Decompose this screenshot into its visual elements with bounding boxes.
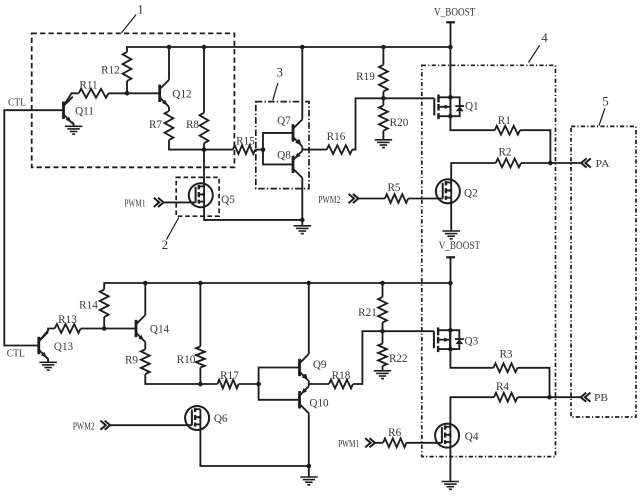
resistor R10 xyxy=(177,347,205,368)
node R19 top on rail xyxy=(381,45,386,50)
node R21 top on rail2 xyxy=(380,281,385,286)
wire R9 bottom to R17 line xyxy=(145,374,200,384)
resistor R21 xyxy=(358,297,387,323)
resistor R19 xyxy=(356,65,388,92)
label 4 xyxy=(541,30,548,45)
svg-text:Q7: Q7 xyxy=(277,115,291,127)
wire R13 to Q14 base xyxy=(81,328,136,330)
node CTL bottom label xyxy=(7,347,25,359)
node Q8 collector / Q5 source xyxy=(300,218,305,223)
node Q7/Q8 base junction xyxy=(261,147,266,152)
transistor Q10 xyxy=(300,386,330,413)
svg-text:PB: PB xyxy=(594,392,608,404)
ground below Q10 xyxy=(300,477,318,485)
wire R21 bottom lead xyxy=(382,323,384,344)
resistor R7 xyxy=(149,111,173,140)
wire PWM2 to Q6 gate xyxy=(110,424,192,426)
wire Q10 collector down xyxy=(308,413,310,477)
node Q7 collector on rail xyxy=(300,45,305,50)
svg-text:PWM2: PWM2 xyxy=(318,194,340,206)
label 3 leader line xyxy=(273,83,278,100)
svg-text:Q5: Q5 xyxy=(221,194,235,206)
transistor Q14 xyxy=(136,315,170,342)
node PB junction xyxy=(547,395,552,400)
transistor Q13 xyxy=(39,332,74,359)
svg-text:R11: R11 xyxy=(79,80,97,92)
wire gate of Q3 xyxy=(383,330,434,332)
dash-dot box 4 (output stage) xyxy=(422,65,556,456)
ground below R22 xyxy=(374,371,391,379)
svg-text:Q3: Q3 xyxy=(465,336,479,348)
wire Q9/Q10 output to R18 xyxy=(309,383,329,385)
label 1 leader line xyxy=(122,15,137,33)
svg-text:R18: R18 xyxy=(332,370,351,382)
output arrow PB xyxy=(581,393,591,402)
wire Q11 collector to R11 xyxy=(64,93,79,106)
label 5 leader line xyxy=(599,109,605,126)
wire R21 top lead xyxy=(382,283,384,297)
node PWM2 bottom label xyxy=(73,420,95,432)
node junction R13/R14 xyxy=(102,326,107,331)
transistor Q11 xyxy=(64,97,94,124)
node Q3 drain xyxy=(448,328,453,333)
dashed box 2 (around Q5) xyxy=(176,177,219,216)
input arrow PWM2 xyxy=(349,194,359,203)
svg-text:PA: PA xyxy=(596,158,610,170)
svg-text:R5: R5 xyxy=(387,182,400,194)
wire R16 up to R19/R20 node xyxy=(352,98,383,149)
svg-text:R9: R9 xyxy=(125,354,138,366)
svg-text:R3: R3 xyxy=(499,348,512,360)
wire R3 to PB node xyxy=(518,368,550,397)
wire Q13 collector to R13 xyxy=(39,329,55,342)
svg-text:Q6: Q6 xyxy=(214,413,228,425)
node R7/R8 junction xyxy=(202,147,207,152)
wire V_BOOST to Q1 drain / to R1 xyxy=(450,47,494,130)
wire R11 to Q12 base xyxy=(109,92,160,94)
transistor Q9 xyxy=(300,354,327,381)
output arrow PA xyxy=(581,158,591,167)
ground below R20 xyxy=(375,140,393,148)
wire Q7 collector to rail xyxy=(301,47,303,119)
wire R15 to Q7/Q8 bases xyxy=(255,149,263,151)
node Q14 collector on rail2 xyxy=(143,281,148,286)
svg-text:R22: R22 xyxy=(389,353,408,365)
wire Q9/Q10 emitter junction xyxy=(308,381,310,386)
resistor R17 xyxy=(218,370,240,389)
ground below Q8 xyxy=(294,226,312,234)
wire R2 to PA node xyxy=(521,162,582,164)
wire R5 to Q2 gate xyxy=(408,198,443,200)
svg-text:Q9: Q9 xyxy=(313,359,327,371)
wire PWM2 to Q2 gate via R5 xyxy=(358,198,385,200)
node PA label xyxy=(596,158,610,170)
node PA junction xyxy=(548,161,553,166)
wire Q11 emitter to ground xyxy=(72,122,74,126)
transistor Q8 xyxy=(277,149,302,178)
wire Q5 source to Q8 node xyxy=(204,202,302,220)
svg-text:3: 3 xyxy=(277,65,284,80)
resistor R13 xyxy=(55,314,81,333)
svg-text:R16: R16 xyxy=(327,131,346,143)
wire R8 top lead to rail xyxy=(203,47,205,113)
wire R10 bottom lead xyxy=(199,368,201,387)
svg-text:R2: R2 xyxy=(498,146,511,158)
wire Q2 drain to R2 xyxy=(451,163,496,183)
wire R18 up to R21/R22 node xyxy=(353,331,383,384)
wire bottom V_BOOST rail xyxy=(104,283,450,290)
transistor Q7 xyxy=(277,115,302,146)
wire Q14 collector to rail2 xyxy=(144,283,146,315)
node Q1 source xyxy=(448,114,453,119)
wire Q7/Q8 emitter junction xyxy=(301,146,303,151)
svg-text:CTL: CTL xyxy=(8,96,26,108)
svg-text:PWM1: PWM1 xyxy=(338,438,359,450)
resistor R6 xyxy=(383,427,406,447)
wire R8 bottom lead to Q5 drain xyxy=(203,143,205,186)
wire Q9 collector to rail2 xyxy=(308,283,310,354)
resistor R2 xyxy=(496,146,521,167)
input arrow PWM2 bottom xyxy=(100,421,110,430)
node PWM1 label xyxy=(125,198,146,210)
ground below Q2 xyxy=(442,231,460,239)
svg-text:2: 2 xyxy=(162,237,169,252)
svg-text:PWM2: PWM2 xyxy=(73,420,95,432)
resistor R15 xyxy=(233,135,255,154)
wire Q14 emitter to R9 xyxy=(144,342,146,349)
transistor Q5 (MOSFET) xyxy=(189,183,235,207)
svg-text:Q10: Q10 xyxy=(309,397,329,409)
label 1 xyxy=(137,2,144,17)
node PB label xyxy=(594,392,608,404)
node R9/R10/Q6 junction xyxy=(198,382,203,387)
wire Q12 emitter to R7 xyxy=(168,107,170,111)
ground below Q11 xyxy=(65,126,83,134)
label 3 xyxy=(277,65,284,80)
wire top V_BOOST rail xyxy=(127,47,450,52)
wire R14 bottom lead xyxy=(103,317,105,329)
ground below Q4 xyxy=(442,482,460,490)
svg-text:Q14: Q14 xyxy=(150,324,170,336)
resistor R20 xyxy=(379,105,409,130)
wire R22 to ground xyxy=(382,366,384,371)
resistor R9 xyxy=(125,349,150,374)
resistor R12 xyxy=(101,52,131,81)
resistor R14 xyxy=(79,290,108,317)
svg-text:1: 1 xyxy=(137,2,144,17)
wire base bracket Q9 Q10 xyxy=(259,368,300,400)
svg-text:R21: R21 xyxy=(358,307,377,319)
node rail2/V_BOOST junction xyxy=(448,281,453,286)
svg-text:CTL: CTL xyxy=(7,347,25,359)
resistor R4 xyxy=(494,381,518,402)
wire R20 to ground xyxy=(382,131,384,140)
node Q12 collector on rail xyxy=(167,45,172,50)
ground below Q13 xyxy=(39,362,57,370)
wire R17 right lead xyxy=(239,383,259,385)
power symbol V_BOOST bottom xyxy=(439,240,481,283)
wire R19 bottom lead xyxy=(382,91,384,105)
transistor Q1 (P-MOSFET with body diode) xyxy=(434,95,478,120)
wire R17 left lead xyxy=(200,383,217,385)
svg-text:Q12: Q12 xyxy=(172,88,191,100)
node R21/R22/Q3-gate junction xyxy=(380,329,385,334)
wire gate of Q1 xyxy=(383,97,434,99)
node CTL top label xyxy=(8,96,26,108)
svg-text:R7: R7 xyxy=(149,119,162,131)
svg-text:R4: R4 xyxy=(496,381,509,393)
wire R1 to PA node xyxy=(520,130,550,163)
resistor R3 xyxy=(494,348,518,372)
wire R4 to PB node xyxy=(518,396,582,398)
dashed box 1 (drive stage 1) xyxy=(32,33,235,167)
node Q10 collector / Q6 source xyxy=(307,464,312,469)
dash-dot box 3 (around Q7 Q8) xyxy=(256,102,309,189)
svg-text:R19: R19 xyxy=(356,71,375,83)
svg-text:Q8: Q8 xyxy=(277,149,291,161)
resistor R5 xyxy=(385,182,408,203)
svg-text:R8: R8 xyxy=(186,119,199,131)
wire base bracket Q7 Q8 xyxy=(263,133,293,165)
wire R7 bottom lead xyxy=(169,140,233,150)
wire Q2 source to ground xyxy=(450,198,452,231)
wire V_BOOST2 to Q3 drain / to R3 xyxy=(450,283,493,368)
svg-text:R10: R10 xyxy=(177,354,196,366)
resistor R18 xyxy=(329,370,353,389)
node Q9/Q10 base junction xyxy=(256,382,261,387)
wire Q8 collector down xyxy=(301,178,303,226)
input arrow PWM1 xyxy=(154,198,164,207)
transistor Q4 (MOSFET) xyxy=(435,424,479,448)
wire R19 top lead xyxy=(382,47,384,65)
label 5 xyxy=(602,94,609,109)
label 2 xyxy=(162,237,169,252)
svg-text:R20: R20 xyxy=(390,117,409,129)
transistor Q2 (MOSFET) xyxy=(436,179,478,203)
svg-text:Q2: Q2 xyxy=(464,187,478,199)
svg-text:Q13: Q13 xyxy=(54,341,74,353)
node PWM1 bottom label xyxy=(338,438,359,450)
node R19/R20/Q1-gate junction xyxy=(381,96,386,101)
svg-text:R12: R12 xyxy=(101,65,120,77)
resistor R1 xyxy=(495,115,520,135)
svg-text:PWM1: PWM1 xyxy=(125,198,146,210)
transistor Q6 (MOSFET) xyxy=(185,406,228,430)
wire Q4 source to ground xyxy=(449,442,451,482)
resistor R22 xyxy=(378,344,408,367)
wire Q6 source to Q10 node xyxy=(200,424,308,466)
wire Q7/Q8 output to R16 xyxy=(302,149,326,151)
svg-text:R6: R6 xyxy=(388,427,401,439)
svg-text:R1: R1 xyxy=(498,115,511,127)
wire R12 bottom lead xyxy=(126,81,128,93)
node rail/V_BOOST junction xyxy=(448,45,453,50)
svg-text:R13: R13 xyxy=(58,314,77,326)
wire Q12 collector to rail xyxy=(168,47,170,80)
wire PWM1 to Q4 gate via R6 xyxy=(375,442,383,444)
resistor R8 xyxy=(186,113,208,143)
transistor Q3 (P-MOSFET with body diode) xyxy=(434,327,479,352)
label 4 leader line xyxy=(529,46,540,63)
wire PWM1 to Q5 gate xyxy=(164,201,196,203)
label 2 leader line xyxy=(167,218,179,240)
svg-text:R14: R14 xyxy=(79,299,98,311)
input arrow PWM1 bottom xyxy=(365,438,375,447)
svg-text:Q1: Q1 xyxy=(465,100,479,112)
transistor Q12 xyxy=(160,80,192,107)
svg-text:V_BOOST: V_BOOST xyxy=(439,240,481,252)
power symbol V_BOOST top xyxy=(434,6,476,47)
svg-text:R17: R17 xyxy=(220,370,239,382)
wire R6 to Q4 gate xyxy=(406,442,442,444)
node Q3 source xyxy=(448,347,453,352)
svg-text:V_BOOST: V_BOOST xyxy=(434,6,476,18)
resistor R11 xyxy=(79,80,109,98)
node PWM2 label xyxy=(318,194,340,206)
resistor R16 xyxy=(327,131,353,154)
node Q9 collector on rail2 xyxy=(307,281,312,286)
dash-dot box 5 (load port) xyxy=(571,126,636,417)
wire CTL bus left side xyxy=(4,110,63,345)
svg-text:5: 5 xyxy=(602,94,609,109)
wire Q13 emitter to ground xyxy=(47,358,49,363)
node Q1 drain xyxy=(448,95,453,100)
svg-text:4: 4 xyxy=(541,30,548,45)
svg-text:Q4: Q4 xyxy=(465,431,479,443)
node R10 top on rail2 xyxy=(198,281,203,286)
wire R10 top lead to rail2 xyxy=(199,283,201,347)
svg-text:Q11: Q11 xyxy=(75,105,94,117)
node junction R11/R12 xyxy=(125,91,130,96)
svg-text:R15: R15 xyxy=(236,135,255,147)
wire Q4 drain to R4 xyxy=(450,397,494,427)
node R8 top on rail xyxy=(202,45,207,50)
